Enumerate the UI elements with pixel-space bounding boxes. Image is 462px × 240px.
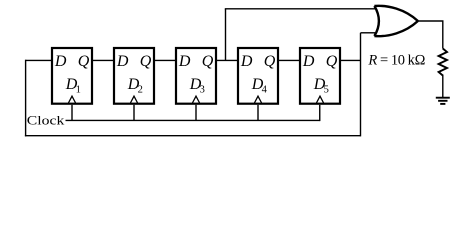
svg-text:R = 10 kΩ: R = 10 kΩ: [367, 53, 425, 69]
wire: feedback into D1 (horizontal left segment): [26, 59, 52, 61]
clock triangle of U2: [130, 96, 137, 103]
svg-text:Q: Q: [140, 53, 152, 70]
wire: bottom feedback run: [25, 135, 361, 137]
svg-text:Q: Q: [264, 53, 276, 70]
flip-flop U4 box: [238, 48, 278, 104]
wire: resistor to ground: [442, 75, 444, 98]
wire: clock drop to U3: [195, 105, 197, 121]
wire: clock distribution line: [66, 119, 320, 121]
clock triangle of U4: [254, 96, 261, 103]
svg-text:Q: Q: [202, 53, 214, 70]
wire: OR output to resistor top: [418, 21, 443, 49]
wire: top feedback run to OR gate upper input: [225, 8, 375, 10]
flip-flop U2 box: [114, 48, 154, 104]
wire: Q4 to D5: [278, 59, 300, 61]
svg-text:Q: Q: [78, 53, 90, 70]
or-gate U6: [374, 6, 418, 36]
clock triangle of U5: [316, 96, 323, 103]
wire: right vertical (Q5 node down to bottom, up to OR input): [360, 33, 362, 137]
wire: clock drop to U5: [319, 105, 321, 121]
wire: Q3 to D4: [216, 59, 238, 61]
flip-flop U5 box: [300, 48, 340, 104]
svg-text:Clock: Clock: [27, 114, 65, 128]
wire: left vertical of feedback loop: [25, 60, 27, 137]
svg-text:D: D: [178, 53, 191, 70]
svg-text:D: D: [302, 53, 315, 70]
svg-text:D: D: [116, 53, 129, 70]
wire: clock drop to U2: [133, 105, 135, 121]
wire: clock drop to U4: [257, 105, 259, 121]
svg-text:D: D: [240, 53, 253, 70]
svg-text:Q: Q: [326, 53, 338, 70]
flip-flop U1 box: [52, 48, 92, 104]
resistor R1 zigzag: [439, 49, 447, 76]
ground symbol: [436, 98, 450, 104]
clock triangle of U3: [192, 96, 199, 103]
wire: Q2 to D3: [154, 59, 176, 61]
flip-flop U3 box: [176, 48, 216, 104]
wire: Q1 to D2: [92, 59, 114, 61]
svg-text:D: D: [54, 53, 67, 70]
clock triangle of U1: [68, 96, 75, 103]
wire: OR gate lower input stub: [361, 32, 376, 34]
wire: Q5 to feedback node: [340, 59, 361, 61]
wire: tap from Q3 node up: [225, 9, 227, 61]
wire: clock drop to U1: [71, 105, 73, 121]
